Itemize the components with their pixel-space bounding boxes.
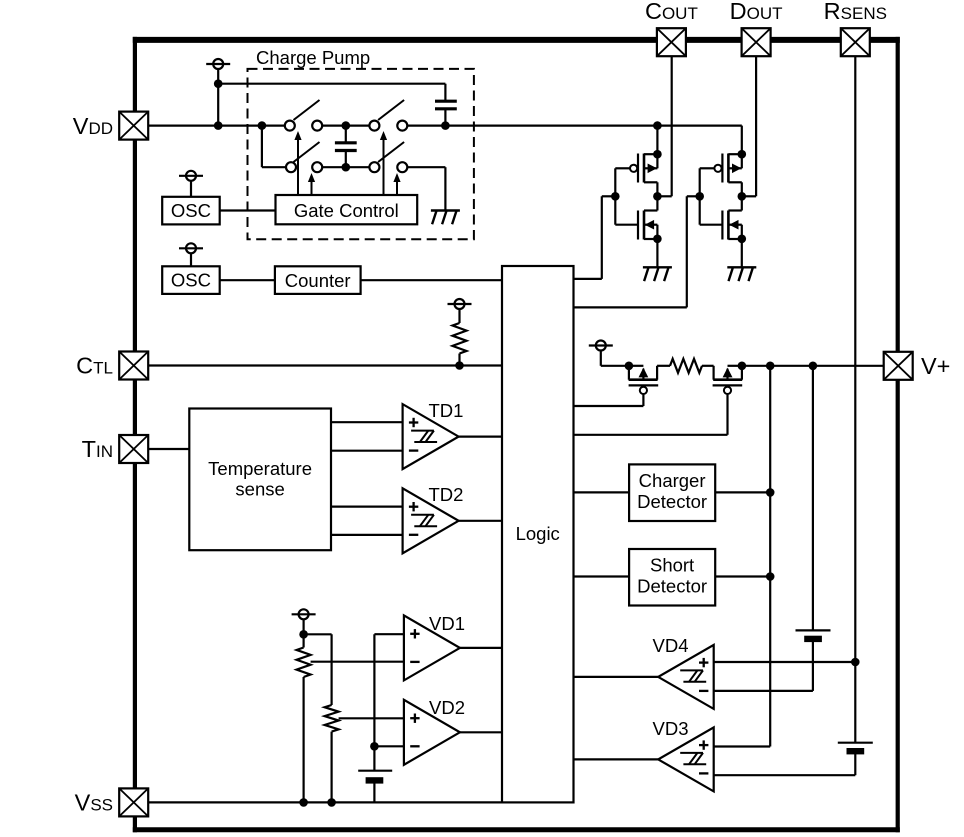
arrow gate drive 2: [308, 173, 315, 195]
terminal above Q5: [589, 341, 629, 366]
wire RSENS pin down to VD4+ node: [854, 56, 856, 662]
wire VD2- to reference: [374, 745, 404, 747]
wire VSS line: [148, 801, 502, 803]
transistor Q5: [574, 366, 659, 406]
pin V+: [884, 352, 913, 380]
svg-text:Logic: Logic: [516, 523, 560, 544]
switch S4: [369, 142, 407, 172]
comparator VD3: [653, 718, 714, 791]
wire temp to TD1+: [331, 421, 403, 423]
capacitor C2 output: [435, 101, 457, 125]
wire Q1 gate to Logic: [574, 196, 616, 279]
wire R3 tap to VD1-: [311, 661, 404, 663]
wire TD2 out: [459, 520, 502, 522]
svg-text:Counter: Counter: [285, 270, 351, 291]
wire Q3 gate to Logic: [574, 196, 700, 307]
node divider top: [299, 630, 308, 639]
node Q1 Q2 drains: [653, 192, 662, 201]
node Q2 source: [653, 235, 662, 244]
node Q1 source: [653, 150, 662, 159]
node charger det: [766, 488, 775, 497]
wire temp to TD2+: [331, 506, 403, 508]
node rail at Q1: [653, 121, 662, 130]
switch S2: [369, 100, 407, 131]
ground under Q2: [643, 267, 672, 281]
svg-text:Temperature: Temperature: [208, 458, 312, 479]
node VSS R4: [327, 798, 336, 807]
wire rail seg3: [407, 124, 742, 126]
wire V+ line: [742, 365, 884, 367]
svg-text:Gate Control: Gate Control: [294, 200, 399, 221]
transistor Q4 NMOS: [700, 168, 742, 267]
capacitor C1 flying: [335, 126, 357, 168]
wire VD3 out: [574, 758, 659, 760]
svg-text:OSC: OSC: [171, 270, 211, 291]
wire battery column down: [812, 366, 814, 631]
wire R4 tap to VD2+: [339, 717, 404, 719]
svg-text:OSC: OSC: [171, 200, 211, 221]
wire CP lower branch: [262, 126, 286, 168]
wire top cap feed: [218, 84, 445, 102]
pin VDD: [119, 112, 148, 140]
node VDD-terminal junction: [214, 79, 223, 88]
node CP input: [258, 121, 267, 130]
svg-text:V+: V+: [921, 353, 950, 379]
node Q3 Q4 drains: [738, 192, 747, 201]
label Gate Control: [294, 200, 399, 221]
comparator TD2: [403, 484, 464, 553]
terminal above OSC2: [179, 243, 203, 266]
pin VSS: [119, 788, 148, 816]
comparator VD1: [404, 613, 465, 680]
switch S3: [286, 142, 322, 172]
box Temperature sense: [189, 409, 331, 551]
node Q6 source: [738, 362, 747, 371]
box Counter: [275, 266, 361, 294]
label VDD: [73, 113, 113, 139]
wire OSC2 to Counter: [220, 279, 275, 281]
wire TD1 out: [459, 436, 502, 438]
label Logic: [516, 523, 560, 544]
svg-text:Charge Pump: Charge Pump: [256, 47, 370, 68]
label Charge Pump: [256, 47, 370, 68]
node Q3 source: [738, 150, 747, 159]
wire VD3- input: [714, 774, 856, 776]
svg-text:DOUT: DOUT: [730, 0, 783, 24]
wire temp to TD1-: [331, 450, 403, 452]
pin CTL: [119, 352, 148, 380]
wire VDD rail: [149, 124, 285, 126]
IC outline border: [133, 37, 900, 832]
wire rail seg2: [322, 124, 369, 126]
transistor Q6: [574, 366, 743, 435]
wire DOUT pin to drain node: [742, 56, 756, 196]
box Logic: [502, 266, 574, 802]
box OSC2: [162, 266, 220, 294]
label VSS: [75, 790, 113, 816]
svg-text:Charger: Charger: [639, 470, 706, 491]
wire to R4 branch: [304, 634, 332, 705]
svg-text:RSENS: RSENS: [824, 0, 887, 24]
ground in charge pump: [431, 211, 460, 225]
comparator VD4: [653, 635, 714, 709]
svg-text:Detector: Detector: [637, 491, 707, 512]
wire Short Detector out: [715, 575, 770, 577]
terminal above OSC1: [179, 171, 203, 197]
resistor R3: [297, 634, 311, 802]
charge pump dashed box: [248, 69, 474, 239]
wire VD1 out: [460, 647, 502, 649]
resistor R1: [453, 323, 467, 366]
svg-text:Short: Short: [650, 555, 694, 576]
wire rail bend to Q3 source: [741, 126, 743, 155]
box Short Detector: [629, 549, 715, 606]
label COUT: [645, 0, 698, 24]
arrow gate drive 3: [380, 131, 387, 195]
label RSENS: [824, 0, 887, 24]
svg-text:VD1: VD1: [429, 613, 465, 634]
node Q3 gate: [695, 192, 704, 201]
svg-text:sense: sense: [235, 478, 284, 499]
svg-text:COUT: COUT: [645, 0, 698, 24]
switch S1: [285, 100, 322, 131]
node reference: [370, 742, 379, 751]
box OSC1: [162, 197, 220, 225]
transistor Q2 NMOS: [615, 168, 657, 267]
terminal above R1: [448, 299, 472, 323]
wire OSC1 to Gate Control: [220, 209, 276, 211]
label Short Detector: [637, 555, 707, 597]
wire lower row seg2: [322, 166, 369, 168]
wire lower row seg3: [407, 167, 445, 210]
label CTL: [76, 353, 113, 379]
wire Charger Detector out: [715, 491, 770, 493]
pin COUT: [657, 28, 686, 56]
wire COUT pin to drain node: [657, 56, 671, 196]
svg-text:TD1: TD1: [429, 400, 464, 421]
svg-text:VD4: VD4: [653, 635, 689, 656]
node Q1 gate: [611, 192, 620, 201]
node R1 to CTL: [455, 361, 464, 370]
battery B3: [838, 662, 873, 775]
terminal above VDD: [206, 59, 230, 126]
wire TIN to Temperature sense: [148, 448, 189, 450]
wire VD4- input: [714, 690, 813, 692]
wire VD4 out: [574, 676, 659, 678]
comparator TD1: [403, 400, 464, 469]
node flying cap bottom: [342, 163, 351, 172]
node short det: [766, 572, 775, 581]
node VDD line junction: [214, 121, 223, 130]
battery B1 reference: [358, 746, 392, 802]
node flying cap top: [342, 121, 351, 130]
wire temp to TD2-: [331, 534, 403, 536]
label OSC1: [171, 200, 211, 221]
battery B2: [796, 630, 831, 691]
svg-text:VD3: VD3: [653, 718, 689, 739]
label Temperature sense: [208, 458, 312, 499]
node Q5 source: [625, 362, 634, 371]
node Q4 source: [738, 235, 747, 244]
comparator VD2: [404, 697, 465, 765]
pin RSENS: [841, 28, 870, 56]
svg-text:Detector: Detector: [637, 576, 707, 597]
node VSS R3: [299, 798, 308, 807]
transistor Q1 PMOS: [615, 126, 657, 197]
label Counter: [285, 270, 351, 291]
label Charger Detector: [637, 470, 707, 512]
wire Logic to Charger Detector: [574, 491, 630, 493]
label DOUT: [730, 0, 783, 24]
terminal above divider: [292, 609, 316, 634]
wire VD2 out: [460, 731, 502, 733]
arrow gate drive 4: [393, 173, 400, 195]
ground under Q4: [727, 267, 756, 281]
wire VD1+ to reference: [374, 634, 404, 746]
label V+: [921, 353, 950, 379]
transistor Q3 PMOS: [700, 154, 742, 197]
wire Counter to Logic: [361, 279, 502, 281]
node C2 bottom: [441, 121, 450, 130]
resistor R4: [325, 705, 339, 802]
arrow gate drive 1: [294, 131, 301, 195]
wire CTL to Logic: [148, 364, 502, 366]
resistor R2: [657, 359, 714, 373]
pin TIN: [119, 435, 148, 463]
node V+ line a: [766, 362, 775, 371]
svg-text:TD2: TD2: [429, 484, 464, 505]
wire sense node down: [714, 366, 771, 747]
svg-text:VD2: VD2: [429, 697, 465, 718]
wire Logic to Short Detector: [574, 575, 630, 577]
label OSC2: [171, 270, 211, 291]
node VD4+ RSENS: [851, 658, 860, 667]
box Charger Detector: [629, 464, 715, 521]
box Gate Control: [276, 195, 418, 224]
pin DOUT: [742, 28, 771, 56]
node V+ line b: [809, 362, 818, 371]
label TIN: [82, 436, 113, 462]
wire VD4+ input: [714, 661, 856, 663]
